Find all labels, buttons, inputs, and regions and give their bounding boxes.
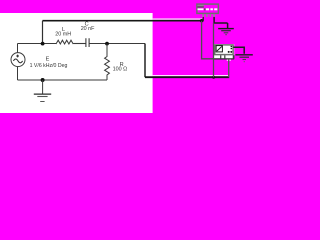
plus sign: [16, 55, 19, 58]
source circle: [11, 53, 25, 67]
sine wave: [13, 59, 22, 63]
wire: drop from top rail to bode IN: [202, 21, 214, 59]
wire: left riser from top rail to mid rail: [42, 21, 44, 44]
wire: mid rail corner down at x=145: [144, 44, 146, 78]
node A junction dot: [41, 42, 45, 46]
wire: source top stub: [17, 44, 19, 53]
svg-text:E: E: [46, 57, 50, 63]
bode icon right corner edge: [233, 55, 235, 59]
capacitor C1 plates: [86, 38, 89, 47]
inductor L1 zigzag: [56, 40, 73, 44]
wire: capacitor to corner, mid rail: [89, 43, 145, 45]
wire: scope pin1 riser: [202, 17, 204, 21]
scope body: [197, 4, 219, 13]
wire top: node top rail: [43, 20, 204, 22]
bode icon terminal notch: [227, 60, 231, 61]
bode icon white bitmap backing: [214, 44, 234, 59]
bode terminal dots: [228, 51, 230, 53]
ground GND2 under scope: [218, 29, 234, 35]
wire: inductor to capacitor: [73, 43, 85, 45]
scope screen dark band: [197, 6, 203, 7]
wire: scope ground run: [214, 17, 228, 29]
bode screen trace: [217, 46, 222, 51]
svg-text:100 Ω: 100 Ω: [113, 66, 128, 72]
bode plotter XBP1: [214, 44, 234, 61]
wire: long vertical scope pin4 to bottom rail (over bode left edge): [213, 23, 215, 77]
oscilloscope XSC1: [197, 4, 219, 17]
bode screen: [216, 46, 222, 52]
bode body: [215, 45, 233, 55]
magenta backdrop: [0, 0, 254, 113]
wire: bottom rail: [18, 79, 108, 81]
node junction dot top rail to instruments: [200, 19, 203, 22]
wire: mid rail source to inductor: [18, 43, 57, 45]
node ground junction dot: [41, 78, 45, 82]
scope screen white band: [198, 8, 204, 10]
resistor R1: [105, 44, 110, 81]
AC source E: [11, 44, 25, 81]
ground GND1: [34, 80, 51, 102]
scope terminal pads: [206, 8, 209, 10]
svg-text:20 nF: 20 nF: [81, 26, 95, 32]
bode pin ticks: [221, 55, 225, 58]
scope dark block: [204, 8, 206, 10]
svg-text:1 V/6 kHz/0 Deg: 1 V/6 kHz/0 Deg: [30, 63, 68, 69]
wire: bode OUT to right ground: [233, 47, 244, 54]
wire: bottom right rail to bode plotter: [145, 76, 229, 78]
wire: riser bode to bottom rail: [228, 59, 230, 77]
bode icon bottom edge: [214, 58, 234, 60]
scope pins: [203, 14, 214, 17]
node B junction dot: [105, 42, 109, 46]
scope screen top band: [197, 5, 203, 6]
wire: source bottom stub: [17, 67, 19, 80]
node junction dot on bottom rail: [212, 76, 215, 79]
wire top rail halo over magenta: [153, 18, 202, 20]
svg-text:20 mH: 20 mH: [55, 32, 71, 38]
white canvas: [0, 13, 153, 113]
ground GND3 right: [235, 55, 252, 62]
wire bottom rail halo over magenta: [153, 75, 228, 77]
